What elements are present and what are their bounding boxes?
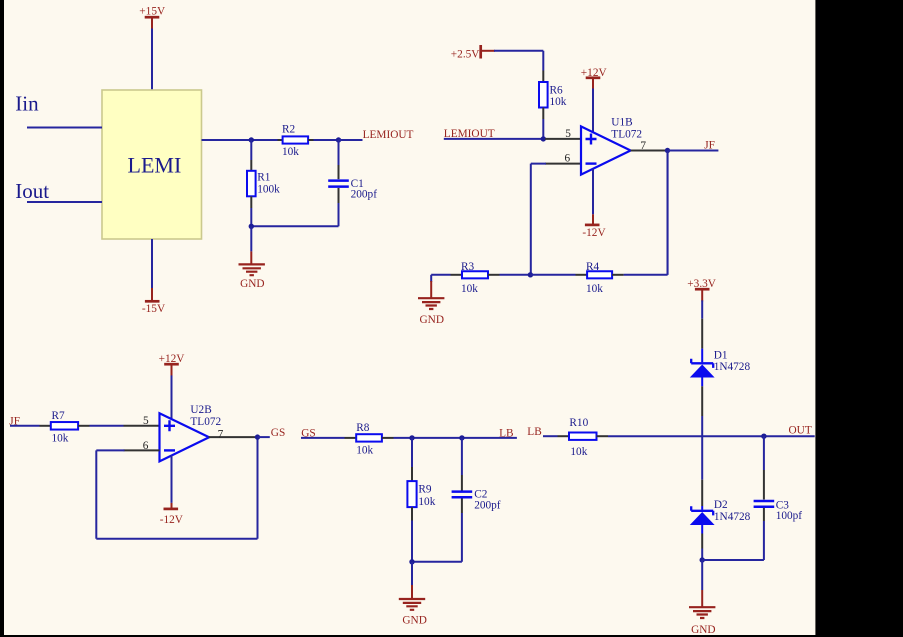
pin R6.1 bbox=[542, 71, 544, 83]
svg-text:10k: 10k bbox=[356, 445, 373, 457]
svg-text:7: 7 bbox=[640, 140, 646, 152]
ground symbol 4 bbox=[399, 599, 425, 610]
wire C3 down bbox=[702, 521, 764, 560]
svg-text:-12V: -12V bbox=[582, 227, 606, 239]
pin D1.K bbox=[701, 319, 703, 349]
junction node GS bbox=[255, 434, 260, 439]
wire GS stub bbox=[258, 436, 270, 438]
power stem +12V U2B bbox=[171, 364, 173, 376]
wire +12V to U1B bbox=[592, 89, 594, 133]
pin U2B.5 bbox=[124, 425, 160, 427]
pin C1.1 bbox=[338, 165, 340, 179]
svg-text:10k: 10k bbox=[550, 96, 567, 108]
svg-text:10k: 10k bbox=[586, 283, 603, 295]
wire R4 to JF column bbox=[624, 151, 668, 275]
pin R9.2 bbox=[411, 507, 413, 520]
power bar +12V U1B bbox=[586, 76, 601, 79]
resistor R2 bbox=[283, 136, 309, 143]
svg-text:Iin: Iin bbox=[15, 92, 39, 116]
pin C3.1 bbox=[763, 470, 765, 500]
wire R10 to OUT bbox=[608, 435, 815, 437]
pin U1B.5 bbox=[545, 138, 581, 140]
power stem -15V bbox=[151, 288, 153, 301]
svg-text:D2: D2 bbox=[714, 499, 728, 511]
wire to GND 4 bbox=[411, 562, 413, 585]
wire D2 to gnd node bbox=[701, 549, 703, 561]
wire LEMIOUT to U1B pin5 bbox=[444, 138, 545, 140]
svg-text:10k: 10k bbox=[282, 146, 299, 158]
svg-text:100pf: 100pf bbox=[776, 510, 803, 522]
power stem -12V U2B bbox=[171, 503, 173, 509]
pin D2.K bbox=[701, 480, 703, 506]
pin R1.2 bbox=[250, 196, 252, 208]
LEMI module U? box bbox=[102, 90, 202, 239]
svg-text:D1: D1 bbox=[714, 349, 728, 361]
junction node R9/C2 gnd bbox=[409, 559, 414, 564]
svg-text:10k: 10k bbox=[461, 283, 478, 295]
resistor R9 bbox=[407, 481, 416, 507]
resistor R10 bbox=[569, 433, 597, 440]
wire R9 down bbox=[411, 521, 413, 562]
wire LB to R10 bbox=[543, 435, 558, 437]
gnd stem 3 bbox=[701, 590, 703, 607]
wire R3 to node bbox=[500, 274, 531, 276]
wire +12V to U2B bbox=[171, 375, 173, 419]
pin D2.A bbox=[701, 534, 703, 549]
junction node R1 bbox=[249, 137, 254, 142]
wire Iin bbox=[27, 127, 102, 129]
svg-text:GS: GS bbox=[271, 427, 285, 439]
capacitor C1 bbox=[328, 181, 349, 187]
wire bottom R1-C1 bbox=[251, 225, 338, 227]
svg-text:TL072: TL072 bbox=[190, 416, 221, 428]
power stem +2.5V bbox=[481, 50, 495, 52]
svg-text:OUT: OUT bbox=[789, 424, 812, 436]
ground symbol 1 bbox=[239, 264, 265, 275]
wire U1B pin6 route bbox=[531, 164, 546, 275]
wire +2.5V to R6 bbox=[494, 51, 543, 71]
resistor R3 bbox=[462, 271, 488, 278]
lead D2 anode bbox=[701, 525, 703, 534]
svg-text:6: 6 bbox=[565, 153, 571, 165]
svg-text:U2B: U2B bbox=[190, 404, 211, 416]
svg-text:LEMI: LEMI bbox=[128, 153, 182, 178]
wire LEMI to -15V bbox=[151, 239, 153, 288]
pin U1B.7 bbox=[631, 150, 668, 152]
power bar +2.5V vertical bbox=[479, 45, 482, 59]
wire node to R1 bbox=[250, 140, 252, 160]
wire JF stub bbox=[668, 150, 719, 152]
wire to GND 1 bbox=[250, 226, 252, 251]
pin R2.2 bbox=[308, 139, 313, 141]
wire R8 to nodes bbox=[394, 437, 517, 439]
wire +3.3V down bbox=[701, 300, 703, 318]
svg-text:R4: R4 bbox=[586, 261, 600, 273]
wire U1B to -12V bbox=[592, 169, 594, 215]
svg-text:GND: GND bbox=[402, 615, 426, 627]
wire R2 to C1 node bbox=[314, 139, 339, 141]
wire Iout bbox=[27, 201, 102, 203]
pin C2.1 bbox=[461, 475, 463, 491]
wire R3 to GND 2 bbox=[430, 275, 432, 282]
svg-text:1N4728: 1N4728 bbox=[714, 511, 751, 523]
power bar +12V U2B bbox=[164, 363, 179, 366]
gnd stem 2 bbox=[430, 281, 432, 298]
pin R2.1 bbox=[278, 139, 283, 141]
pin R8.2 bbox=[382, 437, 394, 439]
pin R3.2 bbox=[488, 274, 500, 276]
svg-text:-12V: -12V bbox=[160, 514, 184, 526]
pin R1.1 bbox=[250, 160, 252, 171]
wire D1 to OUT row bbox=[701, 416, 703, 436]
resistor R1 bbox=[247, 171, 256, 197]
wire C1 down bbox=[338, 203, 340, 226]
resistor R8 bbox=[356, 434, 382, 441]
svg-text:200pf: 200pf bbox=[474, 499, 501, 511]
pin U2B.6 bbox=[124, 449, 160, 451]
power stem -12V U1B bbox=[592, 214, 594, 225]
junction node C1 top bbox=[336, 137, 341, 142]
wire GS to R8 bbox=[301, 437, 345, 439]
svg-text:R3: R3 bbox=[461, 261, 475, 273]
pin C3.2 bbox=[763, 508, 765, 521]
lead D1 cathode bbox=[701, 349, 703, 363]
junction node C3 top bbox=[761, 434, 766, 439]
wire C2 down bbox=[412, 513, 462, 562]
pin R7.2 bbox=[78, 425, 89, 427]
svg-text:R2: R2 bbox=[282, 124, 296, 136]
wire node to C1 bbox=[338, 140, 340, 165]
resistor R7 bbox=[51, 422, 78, 430]
wire node to R4 bbox=[530, 274, 575, 276]
wire R7 to U2B pin5 bbox=[90, 425, 124, 427]
pin C2.2 bbox=[461, 499, 463, 514]
op-amp U2B bbox=[160, 413, 210, 461]
svg-text:Iout: Iout bbox=[15, 179, 49, 203]
svg-text:LB: LB bbox=[527, 426, 541, 438]
pin R9.1 bbox=[411, 467, 413, 481]
svg-text:R9: R9 bbox=[418, 484, 432, 496]
pin U1B.6 bbox=[545, 163, 581, 165]
wire R6 to pin5 node bbox=[542, 119, 544, 139]
lead D1 anode bbox=[701, 377, 703, 386]
wire OUT node to C3 bbox=[763, 436, 765, 470]
svg-text:R8: R8 bbox=[356, 422, 370, 434]
wire U2B to -12V bbox=[171, 455, 173, 503]
junction node JF bbox=[665, 148, 670, 153]
svg-text:GND: GND bbox=[240, 278, 264, 290]
power stem +12V U1B bbox=[592, 78, 594, 90]
wire gnd corner to R3 bbox=[431, 274, 450, 276]
svg-text:10k: 10k bbox=[418, 496, 435, 508]
svg-text:200pf: 200pf bbox=[351, 188, 378, 200]
op-amp U1B bbox=[581, 126, 631, 174]
zener diode D1 1N4728 bbox=[690, 359, 715, 378]
wire node to C2 bbox=[461, 438, 463, 475]
svg-text:R1: R1 bbox=[257, 172, 270, 184]
pin U2B.7 bbox=[209, 436, 258, 438]
svg-text:R6: R6 bbox=[550, 85, 564, 97]
svg-text:LB: LB bbox=[499, 427, 513, 439]
pin R4.2 bbox=[612, 274, 624, 276]
power bar -15V bbox=[145, 300, 160, 303]
svg-text:5: 5 bbox=[143, 415, 149, 427]
pin R3.1 bbox=[451, 274, 463, 276]
pin C1.2 bbox=[338, 188, 340, 203]
svg-text:10k: 10k bbox=[52, 432, 69, 444]
svg-text:6: 6 bbox=[143, 440, 149, 452]
svg-text:-15V: -15V bbox=[142, 303, 166, 315]
power bar +3.3V bbox=[695, 288, 710, 291]
pin R10.1 bbox=[558, 435, 570, 437]
resistor R4 bbox=[587, 271, 612, 278]
zener diode D2 1N4728 bbox=[690, 506, 715, 525]
junction node C2 top bbox=[459, 435, 464, 440]
junction node D2/C3 gnd bbox=[700, 557, 705, 562]
capacitor C2 bbox=[452, 492, 473, 498]
wire OUT row to D2 bbox=[701, 436, 703, 480]
wire to GND 3 bbox=[701, 560, 703, 590]
svg-text:R10: R10 bbox=[569, 417, 588, 429]
svg-text:GND: GND bbox=[420, 314, 444, 326]
wire R1 to gnd node bbox=[250, 208, 252, 226]
svg-text:R7: R7 bbox=[52, 410, 66, 422]
svg-text:+2.5V: +2.5V bbox=[451, 48, 480, 60]
wire node to R9 bbox=[411, 438, 413, 467]
power stem +3.3V bbox=[701, 289, 703, 301]
svg-text:+15V: +15V bbox=[139, 6, 166, 18]
pin R7.1 bbox=[40, 425, 51, 427]
pin R10.2 bbox=[597, 435, 609, 437]
svg-text:7: 7 bbox=[218, 428, 224, 440]
svg-text:GND: GND bbox=[691, 624, 715, 636]
lead D2 cathode bbox=[701, 506, 703, 510]
pin R4.1 bbox=[576, 274, 588, 276]
pin R8.1 bbox=[345, 437, 357, 439]
power bar +15V bbox=[145, 16, 160, 19]
wire +15V to LEMI bbox=[151, 29, 153, 91]
wire JF to R7 bbox=[10, 425, 40, 427]
power stem +15V bbox=[151, 17, 153, 29]
svg-text:1N4728: 1N4728 bbox=[714, 361, 751, 373]
svg-text:10k: 10k bbox=[570, 446, 587, 458]
svg-text:TL072: TL072 bbox=[611, 128, 642, 140]
ground symbol 3 bbox=[689, 607, 715, 618]
svg-text:100k: 100k bbox=[257, 183, 280, 195]
junction node pin5/R6 bbox=[541, 136, 546, 141]
wire U2B feedback bbox=[96, 437, 257, 539]
svg-text:U1B: U1B bbox=[611, 117, 632, 129]
pin D1.A bbox=[701, 386, 703, 416]
svg-text:JF: JF bbox=[704, 139, 715, 151]
gnd stem 1 bbox=[250, 251, 252, 264]
wire to LEMIOUT label bbox=[339, 139, 363, 141]
junction node R9 top bbox=[409, 435, 414, 440]
power bar -12V U2B bbox=[164, 508, 179, 511]
wire JF node down to R4 bbox=[667, 151, 669, 275]
svg-text:5: 5 bbox=[565, 128, 571, 140]
ground symbol 2 bbox=[418, 298, 444, 309]
capacitor C3 bbox=[754, 501, 775, 507]
pin R6.2 bbox=[542, 108, 544, 120]
resistor R6 bbox=[539, 82, 548, 108]
gnd stem 4 bbox=[411, 585, 413, 599]
junction node inverting bbox=[528, 272, 533, 277]
svg-text:LEMIOUT: LEMIOUT bbox=[363, 129, 414, 141]
junction node gnd branch bbox=[249, 224, 254, 229]
wire LEMI output bbox=[202, 139, 278, 141]
power bar -12V U1B bbox=[585, 224, 600, 227]
